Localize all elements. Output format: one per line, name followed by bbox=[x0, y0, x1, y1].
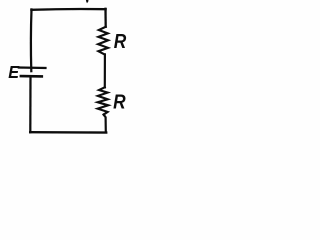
wire top bbox=[31, 8, 105, 11]
svg-text:R: R bbox=[114, 30, 127, 53]
wire right upper bbox=[104, 9, 106, 27]
wire left upper (E top terminal) bbox=[30, 9, 33, 71]
battery E bottom plate (short) bbox=[21, 75, 42, 78]
battery E top plate (long) bbox=[19, 66, 46, 69]
resistor R1 bbox=[98, 27, 108, 55]
wire middle right (between R1 and R2) bbox=[104, 54, 106, 87]
svg-text:R: R bbox=[113, 91, 126, 114]
resistor R2 bbox=[98, 87, 109, 114]
stray ink mark (cropped print at top edge) bbox=[86, 0, 89, 3]
wire bottom bbox=[30, 131, 106, 134]
svg-text:E: E bbox=[8, 62, 20, 82]
wire left lower (E bottom terminal) bbox=[29, 76, 31, 132]
wire right lower bbox=[104, 115, 106, 133]
